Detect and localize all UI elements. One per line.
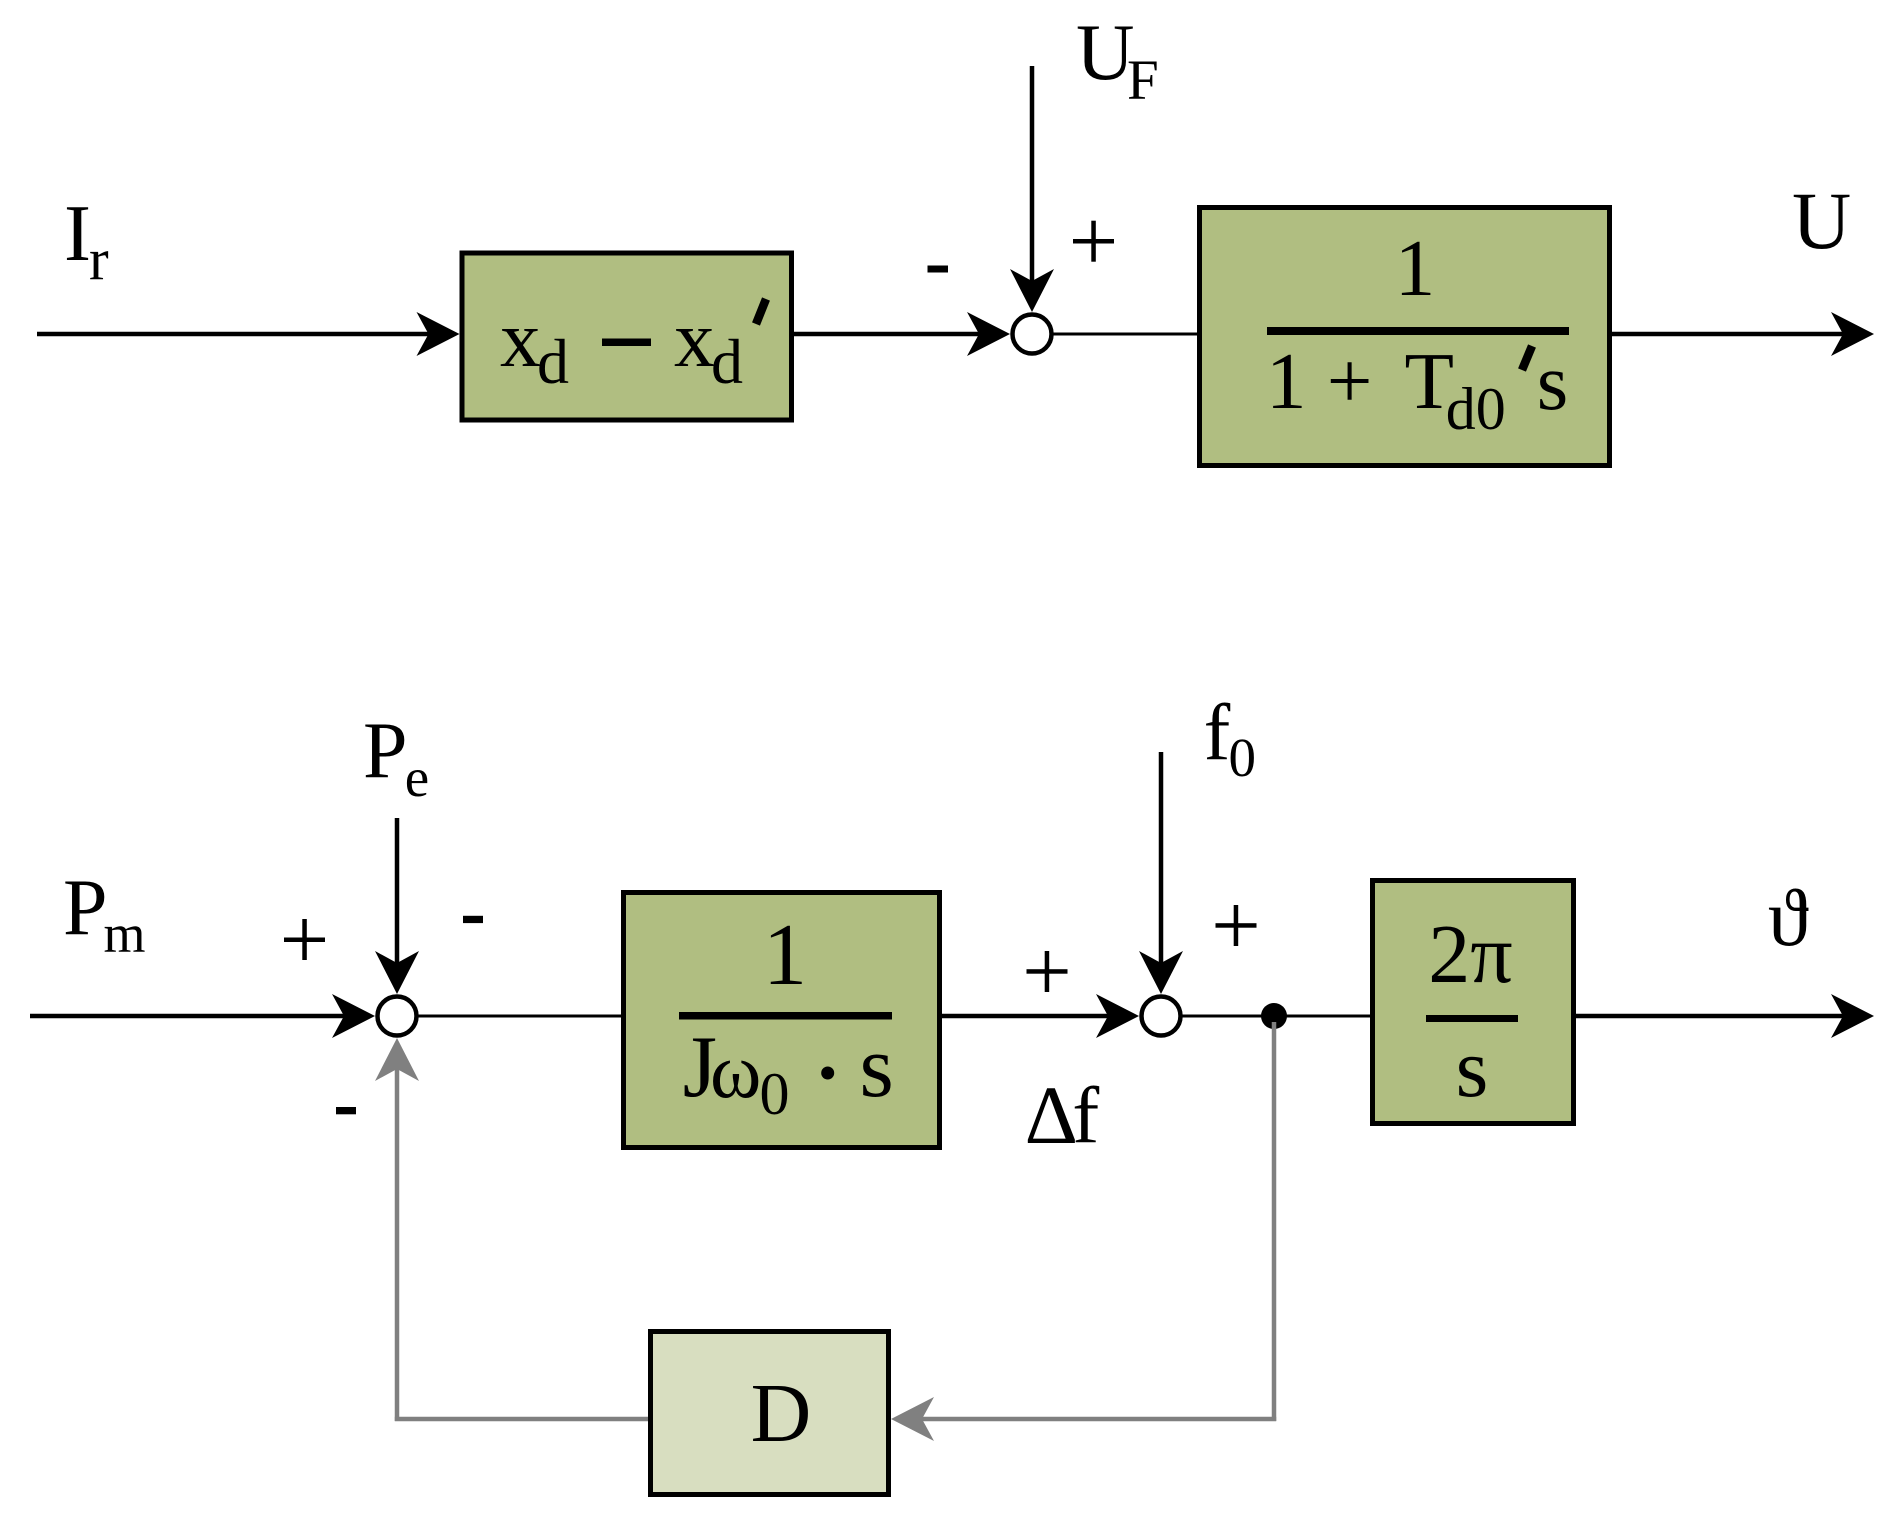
wire feedback lower right horizontal [919, 1417, 1276, 1422]
wire f0 input vertical [1159, 752, 1164, 966]
wire feedback down from node delta-f [1272, 1022, 1277, 1421]
wire feedback up to S2 [395, 1066, 400, 1421]
value label minus [602, 339, 651, 347]
wire Ir input [37, 332, 431, 337]
sign minus at S2 feedback [336, 1107, 356, 1114]
block G3 inertia integrator [624, 893, 940, 1148]
svg-text:s: s [1456, 1022, 1489, 1115]
svg-text:r: r [89, 226, 109, 292]
prime mark on Td0 [1522, 346, 1532, 370]
sign minus at S1 input [928, 266, 949, 273]
wire feedback lower left horizontal [395, 1417, 648, 1422]
wire Pm input [30, 1014, 347, 1019]
svg-text:1: 1 [763, 907, 807, 1004]
wire S3 to block G4 [1182, 1015, 1372, 1018]
svg-text:f: f [1072, 1070, 1099, 1160]
svg-text:P: P [63, 864, 108, 952]
arrow feedback into S2 [375, 1038, 419, 1081]
svg-text:U: U [1792, 175, 1851, 266]
summing junction S2 [378, 997, 417, 1036]
svg-text:m: m [104, 904, 146, 964]
svg-text:2π: 2π [1428, 908, 1512, 1001]
block G2 first-order lag [1200, 208, 1610, 466]
node junction dot delta-f [1261, 1003, 1287, 1029]
wire block G3 to summing junction S3 [940, 1014, 1111, 1019]
svg-text:f: f [1204, 689, 1231, 777]
svg-text:I: I [64, 188, 91, 278]
svg-text:d: d [711, 326, 743, 397]
svg-text:ϑ: ϑ [1768, 872, 1809, 963]
svg-text:D: D [751, 1367, 812, 1460]
svg-text:1: 1 [1395, 223, 1436, 313]
svg-text:x: x [674, 294, 715, 384]
svg-text:s: s [860, 1019, 894, 1116]
block D damping [651, 1332, 889, 1495]
sign minus at S2 for Pe [463, 916, 483, 923]
svg-text:ω: ω [710, 1027, 761, 1114]
summing junction S1 [1013, 315, 1052, 354]
wire U output [1610, 332, 1846, 337]
sign plus at S1 [1073, 221, 1114, 262]
arrow into block G1 [417, 312, 460, 356]
svg-text:x: x [500, 294, 541, 384]
block G4 2pi over s [1373, 881, 1574, 1124]
svg-text:d: d [537, 326, 569, 397]
wire theta output [1574, 1014, 1846, 1019]
svg-text:F: F [1127, 49, 1159, 112]
fraction bar G4 [1426, 1015, 1518, 1022]
arrow into summing junction S3 [1096, 994, 1139, 1038]
svg-text:d0: d0 [1446, 376, 1506, 442]
wire S2 to block G3 [418, 1015, 623, 1018]
summing junction S3 [1142, 997, 1181, 1036]
prime mark on xd [756, 299, 766, 324]
wire Pe input vertical [395, 818, 400, 966]
arrow theta output [1831, 994, 1874, 1038]
wire UF input vertical [1030, 66, 1035, 284]
arrow U output [1831, 312, 1874, 356]
fraction bar G3 [679, 1012, 892, 1020]
svg-text:s: s [1537, 337, 1569, 427]
svg-text:U: U [1076, 7, 1135, 97]
block G1 xd minus xd-prime [462, 253, 792, 420]
arrow f0 into S3 [1139, 951, 1183, 994]
arrow into summing junction S1 [967, 312, 1010, 356]
svg-text:0: 0 [1229, 727, 1257, 788]
fraction bar G2 [1267, 327, 1569, 335]
arrow into summing junction S2 [332, 994, 375, 1038]
multiplication dot [821, 1067, 834, 1080]
svg-text:1 +: 1 + [1266, 336, 1372, 426]
arrow Pe into S2 [375, 951, 419, 994]
svg-text:P: P [363, 707, 408, 795]
svg-text:e: e [405, 747, 429, 808]
wire S1 to block G2 [1053, 333, 1199, 336]
svg-text:Δ: Δ [1025, 1069, 1078, 1161]
svg-text:0: 0 [760, 1061, 790, 1127]
sign plus before S3 [1027, 951, 1068, 992]
sign plus at S3 for f0 [1216, 905, 1257, 946]
arrow UF into S1 [1010, 269, 1054, 312]
sign plus at S2 input [284, 919, 325, 960]
wire block G1 to summing junction S1 [792, 332, 982, 337]
arrow feedback into block D [891, 1397, 934, 1441]
